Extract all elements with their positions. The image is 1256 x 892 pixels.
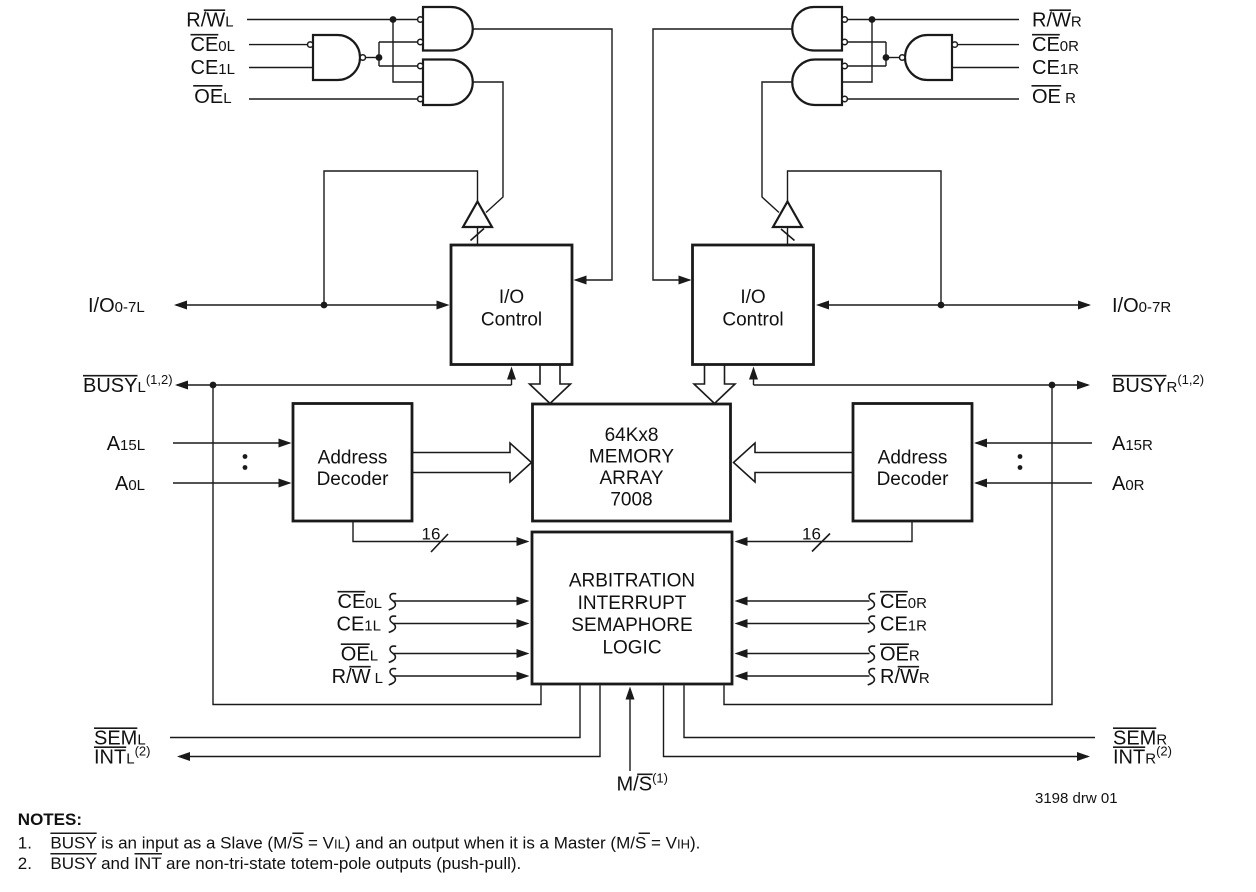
svg-text:64Kx8: 64Kx8 [605,425,659,446]
node BUSY-L junction [210,382,217,389]
svg-text:1.: 1. [18,834,32,853]
squiggle OE-L [389,646,397,662]
svg-text:MEMORY: MEMORY [589,447,674,468]
G1L output bubble [360,55,365,60]
svg-text:R/WR: R/WR [880,666,930,688]
svg-text:R/WL: R/WL [186,9,233,31]
wire I/O-R junction up and over to buffer T2 [788,171,942,305]
label R/W-L [186,9,233,31]
svg-text:Decoder: Decoder [317,469,389,490]
and gate G2R (top) [792,7,842,51]
wire R/W-R branch down to AND4 input [842,20,872,83]
wire OE-L to arbitration [394,653,527,655]
wire G1R output [886,57,900,59]
G1L input bubble (pin CE0L) [308,42,313,47]
and gate G2L (top) [423,7,473,51]
svg-text:R/W L: R/W L [332,666,383,688]
G2R input bubble 1 [842,17,847,22]
arrowhead I/O-R outward (right) [1078,301,1091,310]
label R/W-L (control) [332,666,383,688]
G3L input bubble 1 [418,63,423,68]
squiggle OE-R [868,646,876,662]
svg-text:BUSY and INT are non-tri-state: BUSY and INT are non-tri-state totem-pol… [50,854,521,873]
label CE0R [1032,34,1079,56]
arrowhead CE1L [517,619,530,628]
wire G2L output to I/O Control L right side [473,29,612,280]
G2R input bubble 2 [842,39,847,44]
label OE-L [194,86,231,108]
svg-text:ARRAY: ARRAY [599,468,663,489]
svg-text:A15L: A15L [107,433,145,455]
wire CE0L input [249,44,308,46]
label SEM-R [1113,727,1167,749]
arrowhead I/O-L outward (left) [174,301,187,310]
arrowhead M/S up [626,687,635,700]
label CE1R [1032,57,1079,79]
arrowhead 16-bus R [735,537,748,546]
arrowhead A0R into decoder [974,479,987,488]
nand gate G1R [905,35,952,80]
wire OE-R input [847,98,1019,100]
wire OE-L input [249,98,418,100]
svg-text:16: 16 [422,525,441,544]
label R/W-R (control) [880,666,930,688]
squiggle R/W-R [868,669,876,685]
squiggle CE1R [868,616,876,632]
arrowhead OE-R [735,649,748,658]
wire T2 to I/O Control R top [787,227,789,245]
G3R input bubble 2 [842,96,847,101]
svg-text:7008: 7008 [610,490,652,511]
svg-text:CE0R: CE0R [1032,34,1079,56]
wire SEM-R [684,686,1095,738]
svg-text:A15R: A15R [1112,433,1153,455]
label R/W-R [1032,9,1082,31]
wire I/O-L junction up and over to buffer T1 [324,171,478,305]
wire CE1L input [249,67,313,69]
node BUSY-R junction [1049,382,1056,389]
squiggle CE1L [389,616,397,632]
label INT-L (2) [94,743,150,768]
G1R output bubble [900,55,905,60]
wire I/O-R data line [819,304,1090,306]
wire 16-bus Decoder L to arbitration [353,521,527,542]
svg-text:CE1R: CE1R [880,613,927,635]
label A0L [115,473,145,495]
wire A15L [173,442,290,444]
arrowhead 16-bus L [517,537,530,546]
arrowhead A15R into decoder [974,439,987,448]
svg-text:OER: OER [880,643,920,665]
wire OE-R to arbitration [737,653,870,655]
wire G1L output to AND gate inputs [379,42,418,66]
svg-text:3198 drw 01: 3198 drw 01 [1035,790,1118,807]
svg-text:BUSY is an input as a Slave (M: BUSY is an input as a Slave (M/S = VIL) … [50,834,700,853]
note 1 [18,833,701,852]
label BUSY-L (1,2) [83,372,173,397]
label OE-R [1032,86,1076,108]
wire 16-bus Decoder R to arbitration [737,521,912,542]
svg-text:NOTES:: NOTES: [18,810,82,829]
G3R input bubble 1 [842,63,847,68]
node I/O-R junction [938,302,945,309]
arrowhead into I/O Control R left edge [679,276,692,285]
bus slash below T2 [781,229,795,241]
arrowhead BUSY-L up into I/O Control L [507,367,516,380]
wire I/O-L data line [176,304,447,306]
svg-text:I/O: I/O [740,287,765,308]
label OE-R (control) [880,643,920,665]
box Address Decoder R [853,404,972,522]
bus arrow I/O Control R to memory [694,366,735,404]
wire A0R [976,482,1092,484]
arrowhead into I/O Control L right edge [574,276,587,285]
arrowhead BUSY-R up into I/O Control R [749,367,758,380]
G2L input bubble 1 [418,17,423,22]
node R/W-L junction [390,16,397,23]
node ellipsis dots left [243,454,248,459]
wire BUSY-R down to arbitration logic [724,385,1052,705]
wire INT-L [179,686,600,757]
arrowhead CE0L [517,597,530,606]
arrowhead INT-R outward (right) [1077,752,1090,761]
svg-text:R/WR: R/WR [1032,9,1082,31]
label BUSY-R (1,2) [1112,372,1204,397]
svg-text:OEL: OEL [194,86,231,108]
wire R/W-R input [847,19,1019,21]
arrowhead OE-L [517,649,530,658]
label A15R [1112,433,1153,455]
svg-text:ARBITRATION: ARBITRATION [569,571,695,592]
wire CE0L to arbitration [394,600,527,602]
and gate G3R (bottom) [792,60,842,106]
label 16 L [422,525,441,544]
label CE1L (control) [337,613,381,635]
label CE1R (control) [880,613,927,635]
squiggle CE0R [868,594,876,610]
svg-text:16: 16 [802,525,821,544]
node ellipsis dots right [1018,454,1023,459]
squiggle CE0L [389,594,397,610]
wire BUSY-R line [754,369,1089,385]
svg-text:CE1L: CE1L [337,613,381,635]
box I/O Control L [451,245,572,365]
wire A15R [976,442,1092,444]
wire G3R output to buffer enable [762,82,792,213]
tri-state buffer T2 [773,202,802,228]
arrowhead CE0R [735,597,748,606]
wire G3L output to buffer enable [473,82,503,213]
svg-text:Control: Control [722,310,783,331]
label A0R [1112,473,1145,495]
wire CE1R input [952,67,1019,69]
svg-text:I/O0-7R: I/O0-7R [1112,295,1171,317]
label A15L [107,433,145,455]
label CE1L [191,57,235,79]
wire CE0R to arbitration [737,600,870,602]
svg-text:OEL: OEL [341,643,378,665]
wire R/W-L branch down to AND2 input [393,20,423,83]
svg-text:LOGIC: LOGIC [602,637,661,658]
label drawing number [1035,790,1118,807]
wire R/W-L input [247,19,418,21]
svg-text:2.: 2. [18,854,32,873]
wire BUSY-L down to arbitration logic [213,385,541,705]
svg-text:A0R: A0R [1112,473,1145,495]
node G1R output junction [883,54,890,61]
svg-text:INTERRUPT: INTERRUPT [578,593,687,614]
G2L input bubble 2 [418,39,423,44]
arrowhead R/W-L [517,672,530,681]
label M/S (1) [617,771,668,796]
svg-text:CE1R: CE1R [1032,57,1079,79]
svg-text:SEMAPHORE: SEMAPHORE [571,615,692,636]
wire CE1R to arbitration [737,623,870,625]
box memory array [533,404,731,521]
svg-text:A0L: A0L [115,473,145,495]
wire INT-R [664,686,1089,757]
arrowhead BUSY-L outward (left) [175,381,188,390]
box arbitration logic [532,532,732,684]
G3L input bubble 2 [418,96,423,101]
wire G1L output [366,57,380,59]
node R/W-R junction [869,16,876,23]
nand gate G1L [313,35,360,80]
bus-width slash L [431,534,448,552]
wire G1R output to AND gate inputs [847,42,886,66]
box I/O Control R [693,245,814,365]
svg-text:CE0L: CE0L [191,34,235,56]
arrowhead R/W-R [735,672,748,681]
label SEM-L [94,727,146,749]
note 2 [18,854,521,873]
svg-text:CE0L: CE0L [338,591,382,613]
svg-text:CE0R: CE0R [880,591,927,613]
svg-text:Decoder: Decoder [877,469,949,490]
bus arrow Decoder R to memory [734,443,854,482]
wire BUSY-L line [177,369,512,385]
label INT-R (2) [1113,743,1172,768]
arrowhead I/O-L into I/O Control L [437,301,450,310]
label CE0R (control) [880,591,927,613]
arrowhead CE1R [735,619,748,628]
wire A0L [173,482,290,484]
node I/O-L junction [321,302,328,309]
wire R/W-L to arbitration [394,675,527,677]
G1R input bubble (pin CE0R) [952,42,957,47]
wire CE1L to arbitration [394,623,527,625]
svg-text:Control: Control [481,310,542,331]
wire G2R output to I/O Control R left side [653,29,792,280]
wire CE0R input [958,44,1020,46]
arrowhead BUSY-R outward (right) [1077,381,1090,390]
svg-text:Address: Address [878,448,948,469]
and gate G3L (bottom) [423,60,473,106]
arrowhead INT-L outward (left) [177,752,190,761]
label 16 R [802,525,821,544]
wire M/S into arbitration bottom [629,689,631,771]
svg-text:OE R: OE R [1032,86,1076,108]
wire T1 to I/O Control L top [477,227,479,245]
tri-state buffer T1 [463,202,492,228]
label I/O 0-7L [88,295,145,317]
svg-text:CE1L: CE1L [191,57,235,79]
arrowhead A15L into decoder [279,439,292,448]
wire R/W-R to arbitration [737,675,870,677]
svg-text:I/O0-7L: I/O0-7L [88,295,145,317]
bus slash below T1 [471,229,485,241]
svg-text:Address: Address [318,448,388,469]
arrowhead I/O-R into I/O Control R [816,301,829,310]
label I/O 0-7R [1112,295,1171,317]
label CE0L (control) [338,591,382,613]
node G1L output junction [376,54,383,61]
squiggle R/W-L [389,669,397,685]
bus arrow Decoder L to memory [412,443,532,482]
wire SEM-L [170,686,580,738]
label CE0L [191,34,235,56]
notes heading [18,810,82,829]
arrowhead A0L into decoder [279,479,292,488]
svg-text:I/O: I/O [499,287,524,308]
label OE-L (control) [341,643,378,665]
box Address Decoder L [293,404,412,522]
bus arrow I/O Control L to memory [530,366,571,404]
bus-width slash R [812,534,830,552]
